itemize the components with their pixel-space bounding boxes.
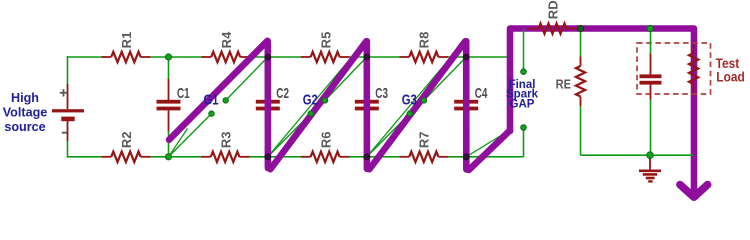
capacitor C1 [157, 79, 181, 131]
wire top rail seg R8-bend [448, 56, 510, 58]
wire top rail seg node2-R5 [268, 56, 301, 58]
svg-text:G1: G1 [204, 91, 219, 108]
spark gap G3 lower electrode [407, 111, 412, 116]
resistor R2 [101, 152, 150, 162]
capacitor test load [640, 54, 662, 100]
spark gap G1 lower electrode [209, 111, 214, 116]
resistor R1 [101, 52, 150, 62]
spark gap G2 lower electrode [308, 111, 313, 116]
capacitor C4 [454, 79, 478, 131]
wire top rail seg node3-R8 [367, 56, 399, 58]
node ground junction [647, 152, 654, 159]
spark discharge path C2 vertical [264, 41, 271, 168]
wire bottom rail seg battery-R2 [67, 156, 102, 158]
spark gap G1 upper electrode [223, 98, 228, 103]
resistor test load [689, 44, 698, 94]
wire test cap top [650, 29, 652, 55]
svg-text:Voltage: Voltage [3, 105, 48, 119]
wire bottom rail seg R2-node1 [151, 156, 169, 158]
svg-text:R4: R4 [219, 31, 234, 48]
svg-text:Load: Load [716, 69, 744, 85]
resistor R8 [399, 52, 448, 62]
node 3 bottom (under spark) [364, 154, 370, 160]
wire bottom rail seg node2-R6 [268, 156, 301, 158]
wire left rail bottom green [67, 141, 69, 157]
svg-text:C1: C1 [177, 85, 190, 102]
wire discharge under-line G1 [169, 129, 188, 157]
wire bottom rail seg R3-node2 [249, 156, 267, 158]
svg-text:R5: R5 [319, 32, 334, 49]
node 3 top (under spark) [364, 54, 370, 60]
spark discharge path stage2 diagonal [270, 41, 366, 169]
svg-text:R6: R6 [319, 131, 334, 148]
svg-text:source: source [4, 120, 45, 134]
wire left rail top green [67, 56, 69, 84]
wire column green bottom C2 [267, 131, 269, 157]
wire top rail seg R5-node3 [350, 56, 367, 58]
resistor R4 [201, 52, 250, 62]
wire top rail seg battery-R1 [67, 56, 102, 58]
wire final gap bottom stem [523, 128, 525, 157]
spark discharge path stage1 diagonal [169, 41, 267, 140]
wire bend up to spark-gap rail [509, 29, 511, 58]
wire bottom rail seg node1-R3 [169, 156, 201, 158]
wire spark gap G1 upper lead [226, 57, 268, 100]
wire RE bottom [580, 106, 582, 155]
battery B1 [52, 84, 84, 141]
node RE tap [577, 25, 583, 31]
spark discharge path stage3 diagonal [369, 41, 465, 169]
svg-text:R1: R1 [119, 32, 134, 49]
resistor RE [576, 57, 585, 107]
node 2 top (under spark) [265, 54, 271, 60]
spark discharge path C3 vertical [363, 41, 370, 169]
node 4 top (under spark) [463, 54, 469, 60]
wire final gap top stem [523, 29, 525, 72]
wire discharge under-line final gap [466, 132, 507, 157]
spark gap G3 upper electrode [421, 98, 426, 103]
spark discharge path final diagonal [469, 130, 510, 170]
wire column green bottom C1 [168, 131, 170, 157]
svg-text:G2: G2 [303, 91, 318, 108]
svg-text:R7: R7 [417, 131, 432, 148]
wire column green top C1 [168, 57, 170, 79]
final spark gap top electrode [521, 69, 527, 75]
wire top rail seg node1-R4 [169, 56, 202, 58]
node 1 bottom [165, 154, 171, 160]
wire top rail seg R1-node1 [151, 56, 169, 58]
wire column green top C2 [267, 57, 269, 79]
wire bottom right rail [581, 154, 694, 156]
wire discharge under-line G3 [367, 44, 462, 157]
svg-text:C3: C3 [375, 85, 388, 102]
wire column green top C4 [465, 57, 467, 79]
wire column green bottom C3 [366, 131, 368, 157]
wire spark gap G2 upper lead [325, 57, 367, 100]
wire spark gap G2 lower lead [268, 114, 311, 157]
ground [639, 155, 661, 182]
resistor RD [529, 23, 577, 33]
wire bottom rail seg R6-node3 [350, 156, 367, 158]
svg-text:High: High [11, 91, 39, 105]
wire top rail seg R4-node2 [250, 56, 268, 58]
wire column green top C3 [366, 57, 368, 79]
svg-text:RE: RE [556, 77, 571, 92]
node 2 bottom (under spark) [265, 154, 271, 160]
test load dashed box [637, 43, 711, 94]
svg-text:R8: R8 [417, 32, 432, 49]
node 1 top [165, 54, 171, 60]
final spark gap bottom electrode [521, 125, 527, 131]
wire test cap bottom [650, 99, 652, 155]
resistor R7 [399, 152, 448, 162]
wire discharge under-line G2 [268, 44, 363, 157]
resistor R6 [301, 152, 350, 162]
capacitor C3 [355, 79, 379, 131]
wire spark gap G3 upper lead [424, 57, 466, 100]
spark gap G2 upper electrode [322, 98, 327, 103]
node test load tap [647, 25, 653, 31]
svg-text:G3: G3 [402, 91, 417, 108]
wire spark gap G3 lower lead [367, 114, 410, 157]
resistor R3 [201, 152, 250, 162]
wire RE top [580, 29, 582, 58]
arrowhead output [680, 185, 708, 198]
svg-text:GAP: GAP [510, 99, 535, 111]
svg-text:C4: C4 [475, 85, 488, 102]
wire spark gap G1 lower lead [169, 114, 212, 157]
spark discharge path C4 vertical [463, 41, 470, 169]
spark discharge path output rail [510, 29, 694, 192]
capacitor C2 [256, 79, 280, 131]
wire bottom rail seg node3-R7 [367, 156, 399, 158]
svg-text:R2: R2 [119, 131, 134, 148]
svg-text:R3: R3 [219, 131, 234, 148]
wire column green bottom C4 [465, 131, 467, 157]
svg-text:C2: C2 [276, 85, 289, 102]
node 4 bottom (under spark) [463, 154, 469, 160]
resistor R5 [301, 52, 350, 62]
svg-text:RD: RD [545, 0, 560, 19]
wire bottom rail seg R7-final gap [448, 156, 523, 158]
